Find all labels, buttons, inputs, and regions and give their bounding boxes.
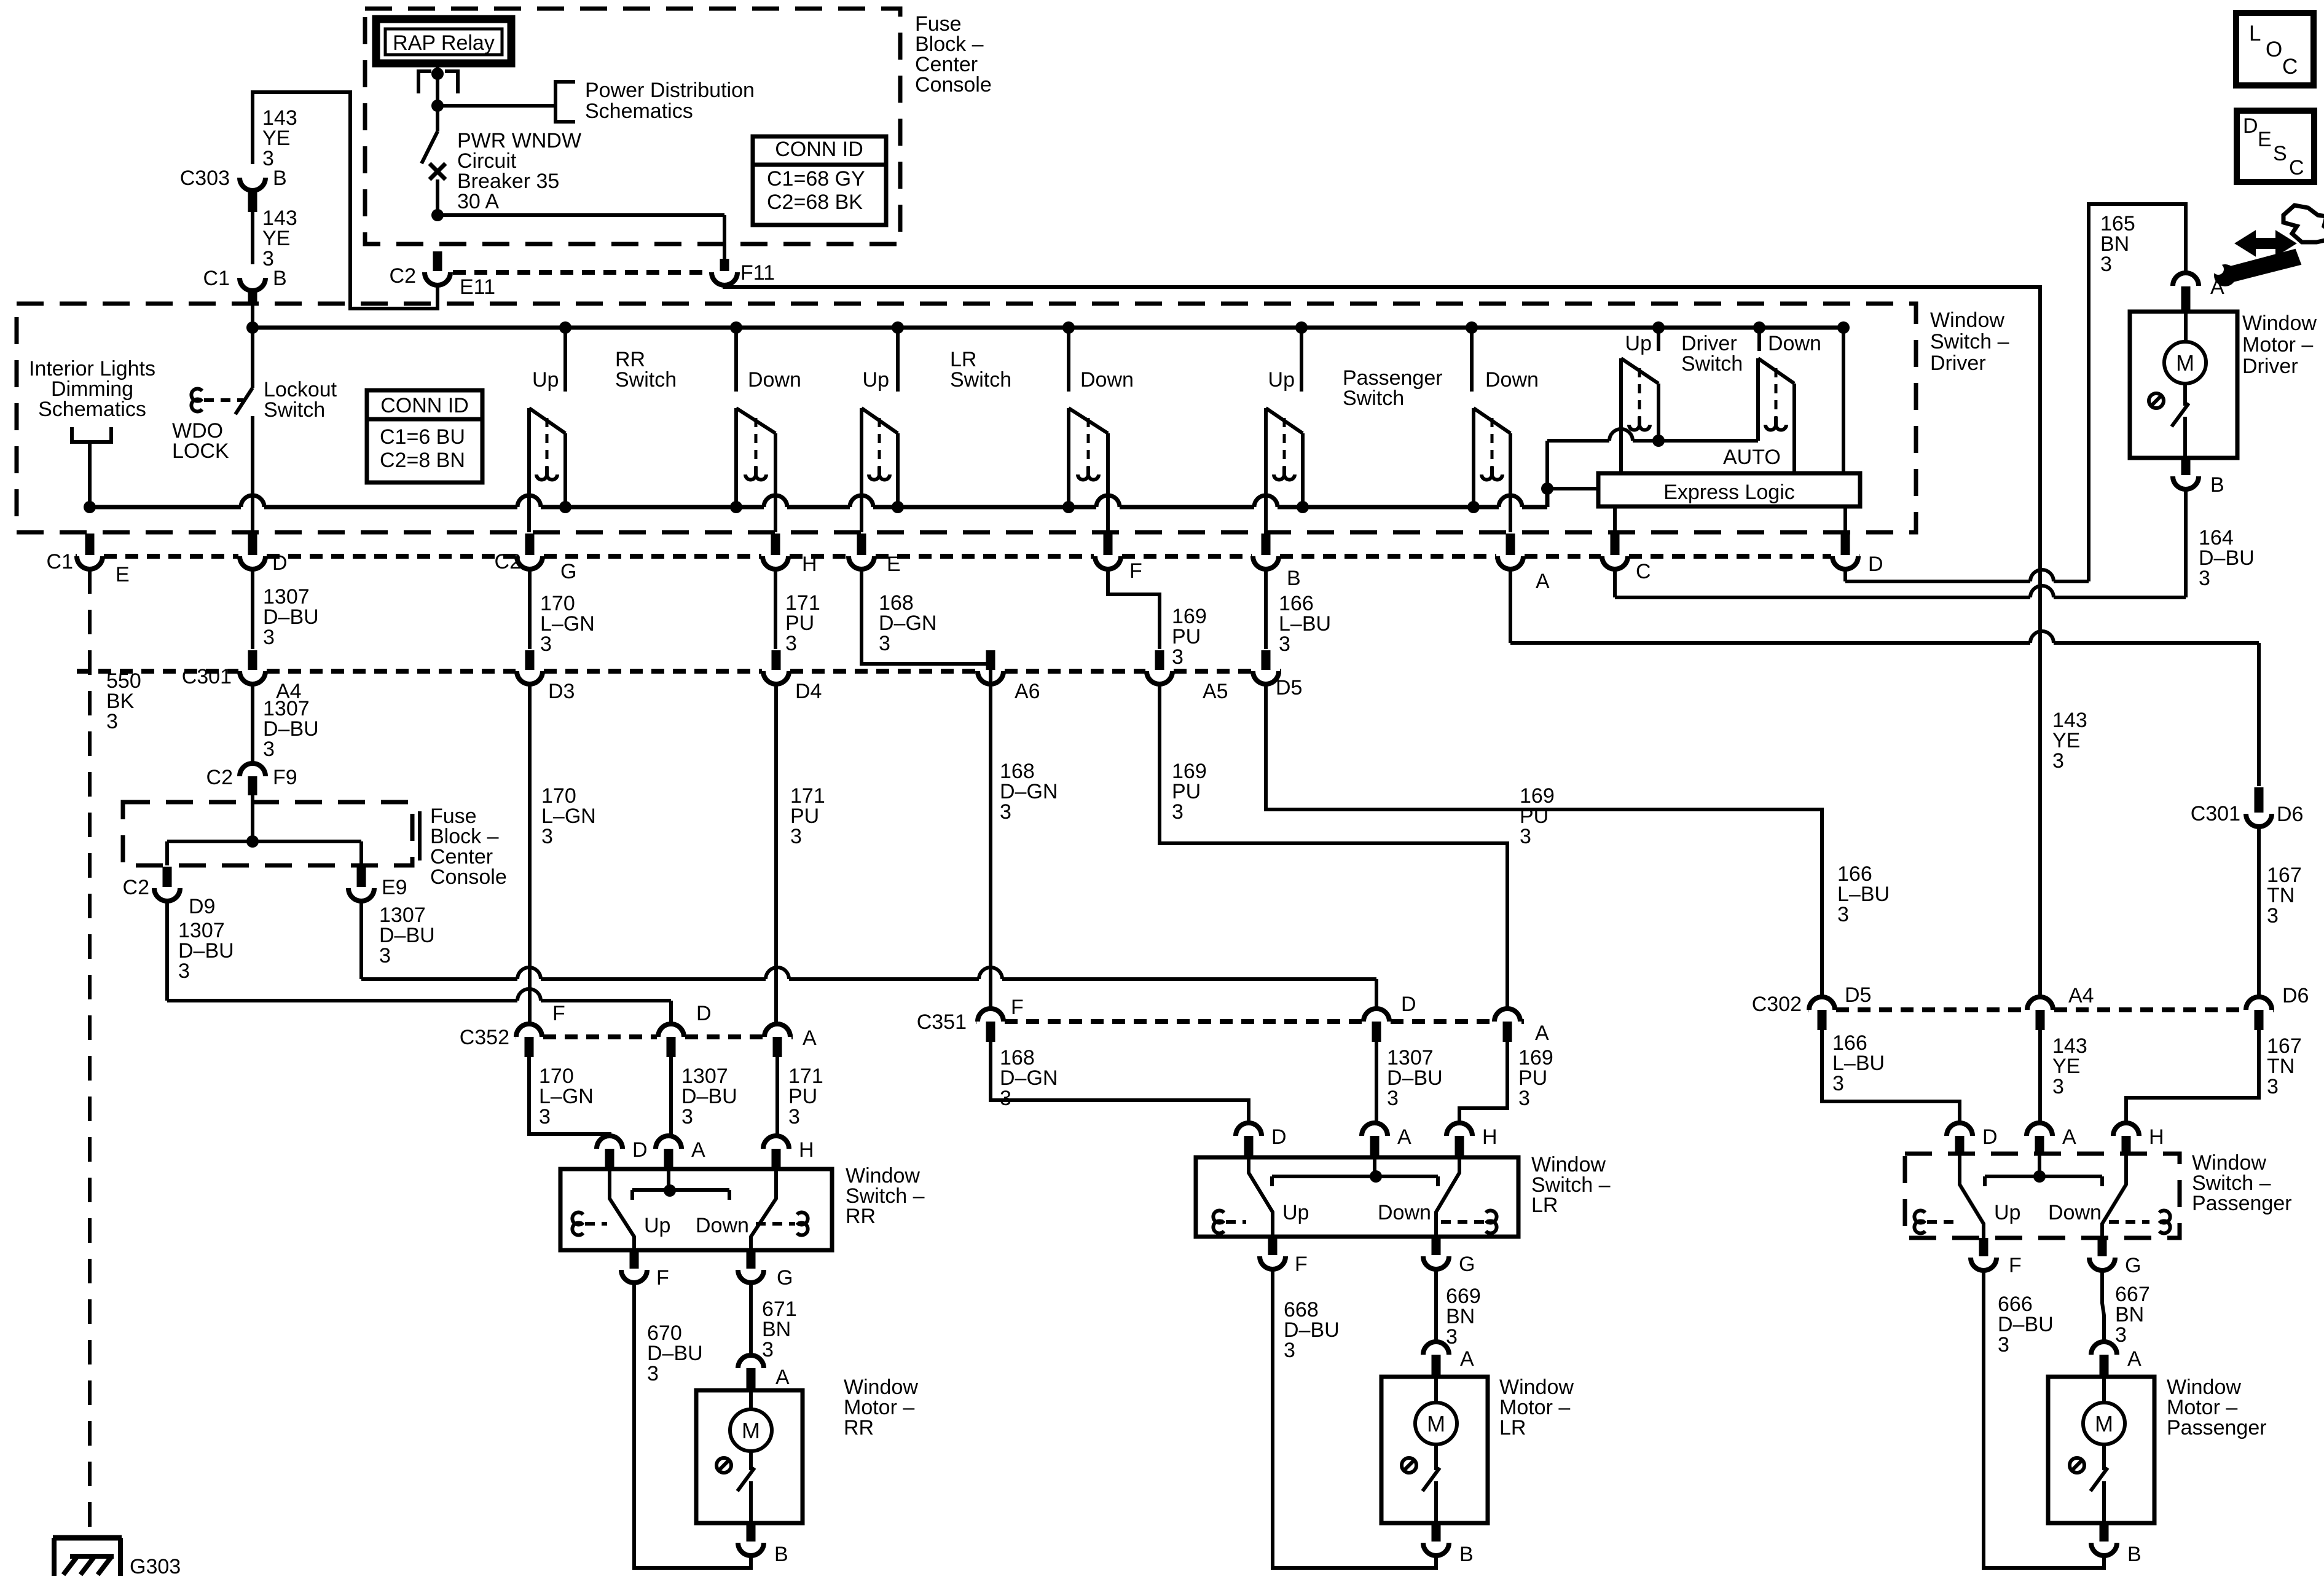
- svg-text:G303: G303: [130, 1555, 181, 1578]
- svg-text:A6: A6: [1015, 680, 1040, 703]
- svg-text:G: G: [2125, 1254, 2141, 1277]
- svg-text:F: F: [1295, 1253, 1308, 1276]
- svg-text:A: A: [691, 1138, 705, 1162]
- svg-text:3: 3: [539, 1105, 551, 1128]
- svg-text:Up: Up: [644, 1214, 670, 1237]
- svg-text:M: M: [742, 1418, 760, 1443]
- svg-text:3: 3: [2267, 1075, 2279, 1098]
- svg-text:Down: Down: [1378, 1201, 1431, 1224]
- svg-text:Up: Up: [1994, 1201, 2020, 1224]
- svg-text:E: E: [887, 553, 901, 576]
- svg-text:L: L: [2249, 22, 2261, 45]
- svg-text:H: H: [2149, 1125, 2164, 1149]
- svg-text:CONN ID: CONN ID: [775, 138, 863, 161]
- svg-text:Down: Down: [1080, 368, 1134, 392]
- svg-text:Console: Console: [430, 865, 507, 889]
- svg-text:B: B: [1287, 567, 1301, 590]
- svg-text:D6: D6: [2277, 803, 2303, 826]
- svg-text:3: 3: [1518, 1087, 1530, 1110]
- svg-text:C2: C2: [206, 766, 233, 789]
- svg-text:E11: E11: [460, 275, 495, 299]
- svg-text:CONN ID: CONN ID: [380, 394, 469, 417]
- svg-text:Down: Down: [1768, 332, 1821, 355]
- svg-text:3: 3: [1279, 632, 1290, 656]
- svg-text:C352: C352: [460, 1026, 509, 1049]
- svg-text:Passenger: Passenger: [2192, 1192, 2292, 1215]
- svg-text:D: D: [1271, 1125, 1287, 1149]
- svg-text:3: 3: [1832, 1072, 1844, 1095]
- svg-text:A4: A4: [2068, 984, 2094, 1007]
- svg-text:C302: C302: [1752, 993, 1802, 1016]
- svg-text:3: 3: [785, 632, 797, 655]
- svg-text:AUTO: AUTO: [1723, 446, 1781, 469]
- svg-text:A: A: [775, 1366, 790, 1389]
- svg-text:M: M: [2095, 1411, 2113, 1436]
- svg-text:A: A: [1535, 1022, 1549, 1045]
- svg-text:RR: RR: [844, 1416, 874, 1439]
- svg-text:D5: D5: [1276, 676, 1302, 699]
- svg-text:Down: Down: [748, 368, 801, 392]
- svg-text:H: H: [802, 553, 817, 576]
- svg-text:C2=68 BK: C2=68 BK: [767, 191, 863, 214]
- svg-text:Express Logic: Express Logic: [1663, 481, 1795, 504]
- svg-text:Motor –: Motor –: [2242, 333, 2313, 356]
- svg-text:C: C: [2289, 156, 2304, 179]
- svg-text:3: 3: [541, 825, 553, 848]
- svg-text:Down: Down: [1485, 368, 1539, 392]
- svg-text:3: 3: [1837, 903, 1849, 926]
- svg-text:A: A: [2127, 1347, 2141, 1371]
- svg-text:3: 3: [263, 626, 275, 649]
- svg-text:Driver: Driver: [1930, 352, 1986, 375]
- svg-text:3: 3: [1172, 645, 1184, 669]
- svg-text:3: 3: [2267, 904, 2279, 927]
- svg-text:3: 3: [1000, 800, 1011, 824]
- svg-text:3: 3: [1387, 1087, 1399, 1110]
- svg-text:G: G: [1459, 1253, 1475, 1276]
- svg-text:Switch: Switch: [1343, 387, 1404, 410]
- svg-text:3: 3: [790, 825, 802, 848]
- svg-text:3: 3: [2052, 1075, 2064, 1098]
- svg-text:C301: C301: [182, 665, 232, 688]
- svg-text:Window: Window: [2242, 312, 2317, 335]
- svg-text:C303: C303: [180, 167, 230, 190]
- svg-text:Up: Up: [1268, 368, 1295, 392]
- svg-text:Switch: Switch: [264, 398, 325, 422]
- svg-text:D3: D3: [548, 680, 575, 703]
- svg-text:30 A: 30 A: [457, 190, 499, 213]
- svg-text:D: D: [272, 551, 288, 575]
- svg-text:C1: C1: [47, 550, 73, 573]
- svg-text:E: E: [116, 563, 130, 586]
- svg-text:C: C: [1636, 560, 1651, 583]
- svg-text:3: 3: [1172, 800, 1184, 824]
- svg-text:E9: E9: [382, 876, 407, 899]
- svg-text:A: A: [1397, 1125, 1411, 1149]
- svg-text:3: 3: [2052, 749, 2064, 773]
- svg-text:RR: RR: [846, 1205, 876, 1228]
- svg-text:B: B: [1459, 1543, 1474, 1566]
- svg-text:3: 3: [106, 710, 118, 733]
- svg-text:3: 3: [178, 959, 190, 983]
- svg-text:3: 3: [681, 1105, 693, 1128]
- svg-text:D5: D5: [1845, 983, 1871, 1007]
- svg-text:LOCK: LOCK: [172, 439, 229, 463]
- svg-text:C2: C2: [495, 550, 521, 573]
- svg-text:3: 3: [2115, 1323, 2127, 1347]
- svg-text:RAP Relay: RAP Relay: [393, 31, 495, 55]
- svg-text:B: B: [273, 267, 287, 290]
- svg-text:F: F: [1011, 996, 1024, 1019]
- svg-text:D6: D6: [2282, 984, 2309, 1007]
- svg-text:Console: Console: [915, 73, 992, 96]
- svg-text:D: D: [1868, 553, 1883, 576]
- svg-text:3: 3: [379, 944, 391, 967]
- svg-text:D: D: [696, 1002, 712, 1025]
- svg-text:S: S: [2273, 142, 2287, 165]
- svg-text:3: 3: [762, 1338, 774, 1361]
- svg-text:Power Distribution: Power Distribution: [585, 79, 755, 102]
- svg-text:F: F: [552, 1002, 565, 1025]
- svg-text:LR: LR: [1531, 1194, 1558, 1217]
- svg-text:F9: F9: [273, 766, 297, 789]
- svg-text:Switch –: Switch –: [1930, 330, 2009, 353]
- svg-text:A: A: [1536, 570, 1550, 593]
- svg-text:3: 3: [788, 1105, 800, 1128]
- svg-text:D: D: [632, 1138, 648, 1162]
- svg-text:C351: C351: [917, 1010, 967, 1034]
- svg-text:Down: Down: [696, 1214, 749, 1237]
- svg-text:D4: D4: [795, 680, 822, 703]
- svg-text:F11: F11: [740, 261, 775, 285]
- svg-text:LR: LR: [1499, 1416, 1526, 1439]
- svg-text:A: A: [803, 1026, 817, 1050]
- svg-text:B: B: [2210, 473, 2224, 497]
- svg-text:3: 3: [1284, 1339, 1295, 1362]
- svg-text:B: B: [774, 1543, 788, 1566]
- svg-text:D: D: [1401, 993, 1416, 1016]
- svg-text:Driver: Driver: [2242, 355, 2298, 378]
- svg-text:H: H: [799, 1138, 814, 1162]
- svg-text:D: D: [1982, 1125, 1998, 1149]
- svg-text:H: H: [1482, 1125, 1498, 1149]
- svg-text:Switch: Switch: [615, 368, 677, 392]
- svg-text:Up: Up: [532, 368, 559, 392]
- svg-text:G: G: [777, 1266, 793, 1290]
- svg-text:C301: C301: [2191, 802, 2240, 825]
- svg-text:F: F: [656, 1266, 669, 1290]
- svg-text:C2: C2: [123, 876, 149, 899]
- svg-text:3: 3: [262, 147, 274, 170]
- svg-text:C1=6 BU: C1=6 BU: [380, 425, 465, 449]
- svg-text:Up: Up: [1625, 332, 1652, 355]
- svg-text:3: 3: [1998, 1333, 2009, 1357]
- svg-text:C: C: [2282, 55, 2298, 79]
- svg-text:3: 3: [647, 1362, 659, 1385]
- svg-text:D: D: [2243, 114, 2258, 138]
- svg-text:Schematics: Schematics: [38, 398, 146, 421]
- svg-text:Schematics: Schematics: [585, 100, 693, 123]
- svg-text:M: M: [1427, 1411, 1445, 1436]
- svg-text:3: 3: [263, 738, 275, 761]
- svg-text:E: E: [2258, 128, 2272, 151]
- svg-text:3: 3: [1520, 825, 1531, 848]
- svg-text:3: 3: [2100, 253, 2112, 276]
- svg-text:A: A: [1460, 1347, 1474, 1371]
- svg-text:O: O: [2266, 37, 2282, 61]
- svg-text:Up: Up: [1282, 1201, 1309, 1224]
- svg-text:3: 3: [540, 632, 552, 656]
- svg-text:B: B: [2127, 1543, 2141, 1566]
- svg-text:Passenger: Passenger: [2167, 1416, 2267, 1439]
- svg-text:B: B: [273, 167, 287, 190]
- svg-text:A: A: [2062, 1125, 2076, 1149]
- svg-text:C1=68 GY: C1=68 GY: [767, 167, 865, 191]
- svg-text:Switch: Switch: [1681, 352, 1743, 376]
- svg-text:C2: C2: [390, 264, 416, 288]
- svg-text:G: G: [560, 560, 576, 583]
- svg-text:D9: D9: [189, 895, 215, 918]
- svg-text:Window: Window: [1930, 309, 2004, 332]
- svg-text:F: F: [1129, 559, 1142, 583]
- svg-text:3: 3: [879, 632, 890, 655]
- svg-text:C2=8 BN: C2=8 BN: [380, 449, 465, 472]
- svg-text:M: M: [2176, 350, 2194, 376]
- svg-text:Down: Down: [2048, 1201, 2102, 1224]
- svg-text:A5: A5: [1203, 680, 1228, 703]
- svg-text:Up: Up: [863, 368, 889, 392]
- svg-text:3: 3: [2199, 567, 2210, 590]
- svg-text:Switch: Switch: [950, 368, 1011, 392]
- svg-text:F: F: [2009, 1254, 2022, 1277]
- svg-text:C1: C1: [203, 267, 230, 290]
